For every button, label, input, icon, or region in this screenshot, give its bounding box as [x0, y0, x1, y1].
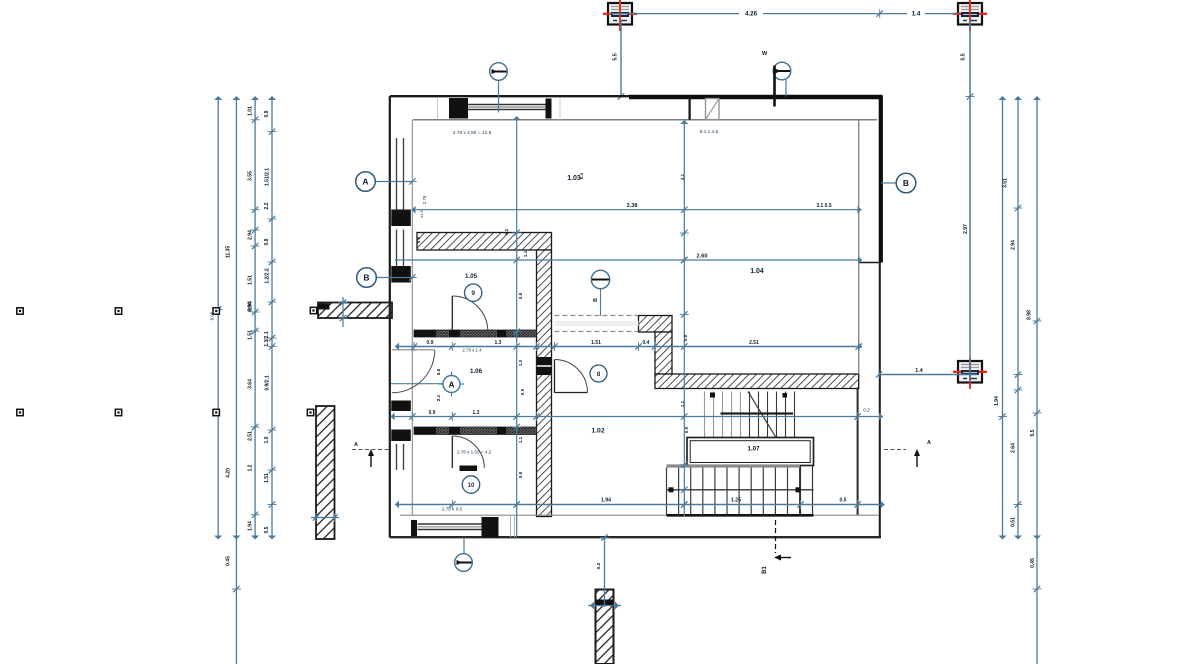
svg-text:1.4: 1.4	[915, 368, 923, 374]
svg-text:3.1 0.5: 3.1 0.5	[816, 203, 832, 209]
svg-text:1.25: 1.25	[731, 498, 741, 504]
svg-text:0.6: 0.6	[416, 236, 421, 243]
svg-text:A: A	[362, 177, 368, 187]
svg-text:0.2: 0.2	[863, 408, 870, 413]
svg-text:1.4: 1.4	[912, 11, 921, 18]
svg-text:1.3/2.1: 1.3/2.1	[264, 331, 270, 347]
svg-text:B: B	[593, 298, 599, 302]
svg-text:1.0: 1.0	[518, 359, 523, 366]
svg-text:1.01: 1.01	[248, 106, 254, 116]
svg-text:0.45: 0.45	[226, 556, 232, 566]
svg-text:10: 10	[468, 483, 475, 489]
svg-text:3.55: 3.55	[248, 171, 254, 181]
svg-text:0.9: 0.9	[684, 426, 689, 433]
svg-text:0.8: 0.8	[683, 334, 688, 341]
svg-text:1.0: 1.0	[264, 436, 270, 443]
svg-text:A: A	[449, 381, 455, 390]
svg-text:2.1: 2.1	[436, 394, 441, 401]
svg-text:5.5: 5.5	[961, 53, 967, 60]
svg-text:0.94: 0.94	[248, 301, 254, 311]
svg-text:1.1: 1.1	[680, 400, 685, 407]
svg-text:0.4: 0.4	[579, 172, 584, 179]
svg-text:0.9: 0.9	[429, 410, 436, 416]
svg-text:0.4: 0.4	[643, 340, 650, 346]
svg-text:4.20: 4.20	[226, 468, 232, 478]
svg-text:1.02: 1.02	[591, 428, 604, 435]
svg-text:5.5: 5.5	[1030, 429, 1036, 436]
svg-text:1.2: 1.2	[504, 228, 509, 235]
svg-text:2.78: 2.78	[422, 195, 427, 204]
svg-text:2.51: 2.51	[749, 340, 759, 346]
svg-text:A: A	[354, 442, 358, 448]
svg-text:3.38: 3.38	[627, 203, 638, 209]
svg-text:0.5: 0.5	[264, 526, 270, 533]
svg-text:2.51: 2.51	[248, 431, 254, 441]
svg-text:3.1: 3.1	[680, 173, 685, 180]
svg-text:1.94: 1.94	[601, 498, 611, 504]
svg-text:0.9: 0.9	[436, 368, 441, 375]
svg-text:9: 9	[471, 290, 475, 297]
svg-text:2.64: 2.64	[1011, 443, 1017, 453]
svg-text:1.51: 1.51	[248, 330, 254, 340]
svg-text:0.45: 0.45	[1030, 558, 1036, 568]
svg-text:2.60: 2.60	[697, 254, 708, 260]
svg-text:1.06: 1.06	[470, 368, 483, 375]
svg-text:1.94: 1.94	[248, 521, 254, 531]
svg-text:0.51: 0.51	[1011, 517, 1017, 527]
svg-text:2.78 x 1.50 = 4.2: 2.78 x 1.50 = 4.2	[457, 450, 492, 455]
svg-text:1.2: 1.2	[248, 464, 254, 471]
svg-text:B: B	[903, 178, 909, 188]
svg-text:5.5: 5.5	[613, 53, 619, 60]
svg-text:1.05: 1.05	[465, 273, 478, 280]
svg-text:2.78 x 0.5: 2.78 x 0.5	[442, 507, 463, 512]
svg-text:1.04: 1.04	[750, 268, 764, 275]
svg-text:1.51: 1.51	[264, 473, 270, 483]
svg-text:0.9: 0.9	[427, 340, 434, 346]
svg-text:B1: B1	[762, 566, 768, 574]
svg-text:1.3: 1.3	[495, 340, 502, 346]
svg-text:6.1 x 4.5: 6.1 x 4.5	[700, 129, 719, 135]
svg-text:0.9: 0.9	[264, 110, 270, 117]
svg-text:0.9/2.1: 0.9/2.1	[264, 375, 270, 391]
svg-text:1.1: 1.1	[518, 436, 523, 443]
svg-text:3.51: 3.51	[1003, 178, 1009, 188]
svg-text:1.4: 1.4	[523, 250, 528, 257]
svg-text:8: 8	[597, 371, 601, 378]
svg-text:2.94: 2.94	[1011, 240, 1017, 250]
svg-text:1.51: 1.51	[248, 275, 254, 285]
svg-text:1.94: 1.94	[994, 396, 1000, 406]
svg-text:2.94: 2.94	[248, 230, 254, 240]
svg-text:0.2: 0.2	[596, 562, 601, 569]
svg-text:2.2: 2.2	[264, 202, 270, 209]
svg-text:1.51: 1.51	[591, 340, 601, 346]
svg-text:1.07: 1.07	[747, 446, 760, 453]
svg-text:8.98: 8.98	[1027, 310, 1033, 320]
svg-text:2.78 x 4.50 = 12.5: 2.78 x 4.50 = 12.5	[453, 130, 492, 136]
svg-text:x1.5: x1.5	[419, 209, 424, 217]
svg-text:2.78 x 1.4: 2.78 x 1.4	[462, 348, 482, 353]
svg-text:0.8: 0.8	[264, 238, 270, 245]
svg-text:B: B	[363, 273, 369, 283]
svg-text:0.8: 0.8	[518, 471, 523, 478]
svg-text:1.2/2.2: 1.2/2.2	[264, 268, 270, 284]
svg-text:1.51/2.1: 1.51/2.1	[264, 168, 270, 186]
svg-text:2.97: 2.97	[963, 224, 969, 234]
svg-text:11.35: 11.35	[226, 246, 232, 258]
svg-text:A: A	[927, 440, 931, 446]
svg-text:3.64: 3.64	[248, 379, 254, 389]
svg-text:1.3: 1.3	[473, 410, 480, 416]
svg-text:0.5: 0.5	[840, 498, 847, 504]
svg-text:0.8: 0.8	[518, 292, 523, 299]
svg-text:4.26: 4.26	[745, 11, 758, 18]
svg-text:0.9: 0.9	[520, 388, 525, 395]
